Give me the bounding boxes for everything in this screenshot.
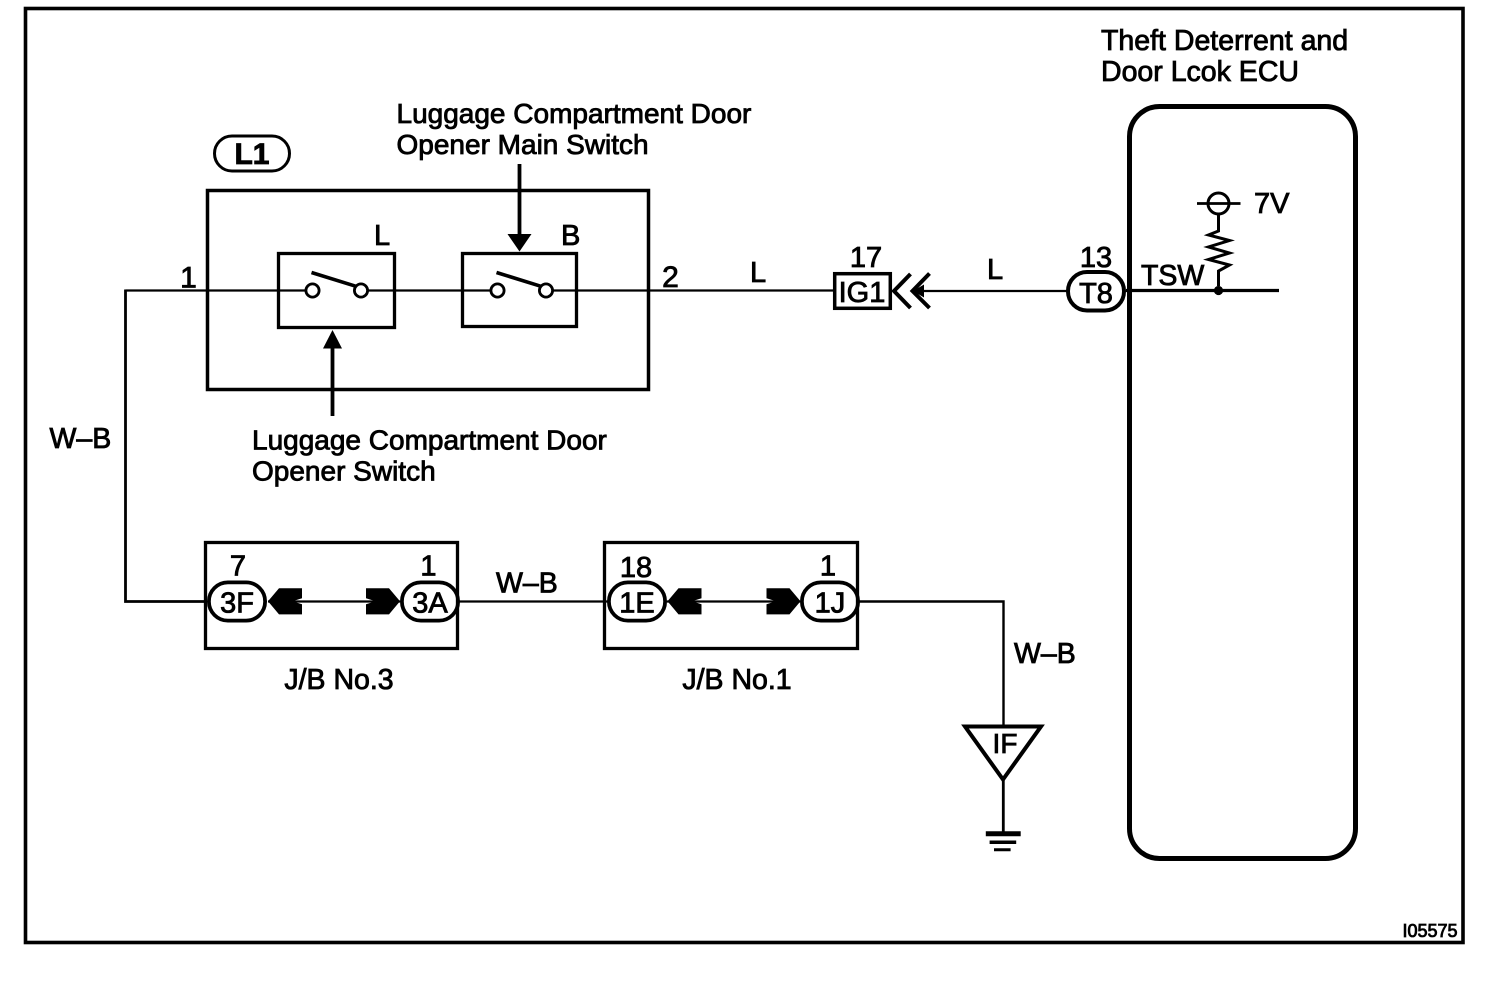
svg-text:13: 13	[1080, 242, 1112, 274]
switch SW-B box	[463, 254, 577, 327]
wire W-B vertical from pin1	[126, 290, 208, 602]
connector 1J oval	[802, 582, 858, 620]
wire pin1 to SW-L	[126, 289, 307, 291]
switch assembly L1 box	[208, 191, 649, 390]
svg-text:Theft Deterrent and: Theft Deterrent and	[1101, 25, 1348, 57]
switch SW-L box	[279, 254, 395, 328]
junction block J/B No.3 box	[206, 543, 458, 649]
svg-text:L: L	[750, 257, 766, 289]
arrow to main switch	[518, 164, 522, 236]
arrow to opener switch	[331, 347, 335, 416]
arrowhead left after 1E	[668, 588, 702, 614]
svg-text:W–B: W–B	[496, 568, 558, 600]
svg-text:1E: 1E	[619, 588, 654, 620]
junction chevrons	[894, 274, 911, 308]
svg-text:J/B No.3: J/B No.3	[284, 664, 393, 696]
ground symbol	[986, 831, 1021, 836]
wire 3F to 3A	[268, 600, 400, 602]
svg-text:Luggage Compartment Door: Luggage Compartment Door	[252, 425, 607, 456]
wire 3A to 1E	[459, 600, 608, 602]
ECU U1 box	[1130, 107, 1356, 859]
connector T8 oval	[1068, 272, 1124, 311]
svg-text:Opener Main Switch: Opener Main Switch	[397, 129, 649, 160]
wire 1E to 1J	[667, 600, 800, 602]
svg-text:Door Lcok ECU: Door Lcok ECU	[1101, 56, 1299, 88]
connector IG1 box	[835, 274, 891, 309]
arrowhead right before 3A	[366, 588, 400, 614]
svg-text:TSW: TSW	[1141, 260, 1204, 292]
wire arrowhead at junction chevron	[913, 285, 924, 298]
svg-text:18: 18	[620, 552, 652, 584]
svg-text:IG1: IG1	[839, 277, 886, 309]
svg-text:3F: 3F	[220, 588, 254, 620]
svg-text:T8: T8	[1079, 278, 1113, 310]
svg-text:1J: 1J	[815, 588, 846, 620]
svg-text:L1: L1	[234, 138, 269, 171]
switch SW-B contacts	[491, 284, 504, 297]
wire SW-L to SW-B	[368, 289, 492, 291]
svg-text:Luggage Compartment Door: Luggage Compartment Door	[397, 98, 752, 129]
svg-text:L: L	[374, 220, 390, 252]
connector 3A oval	[402, 582, 458, 620]
arrowhead left after 3F	[268, 588, 302, 614]
svg-text:1: 1	[820, 551, 836, 583]
svg-text:B: B	[561, 220, 580, 252]
svg-text:I05575: I05575	[1402, 921, 1457, 941]
junction node	[1214, 286, 1223, 295]
connector L1 label bubble	[215, 136, 290, 171]
svg-text:W–B: W–B	[1014, 638, 1076, 670]
svg-text:2: 2	[662, 261, 679, 294]
wire T8 into ECU	[1126, 289, 1279, 292]
svg-text:L: L	[987, 254, 1003, 286]
arrowhead right before 1J	[767, 588, 801, 614]
ground connector IF triangle	[965, 727, 1041, 780]
svg-text:17: 17	[850, 242, 882, 274]
svg-text:Opener Switch: Opener Switch	[252, 456, 436, 487]
connector 1E oval	[609, 582, 665, 620]
wire SW-B to IG1	[553, 289, 835, 291]
connector 3F oval	[209, 582, 265, 620]
wire 1J to ground drop	[859, 602, 1004, 728]
switch SW-L contacts	[306, 284, 319, 297]
wire IF to ground	[1002, 779, 1005, 832]
switch SW-L blade	[312, 273, 357, 287]
svg-text:J/B No.1: J/B No.1	[682, 664, 791, 696]
voltage source 7V	[1197, 202, 1241, 205]
junction block J/B No.1 box	[605, 543, 858, 649]
svg-text:W–B: W–B	[50, 423, 112, 455]
svg-text:7V: 7V	[1254, 188, 1290, 220]
wire chevron to T8	[916, 290, 1068, 292]
resistor R1	[1209, 214, 1230, 286]
switch SW-B blade	[497, 273, 542, 287]
svg-text:7: 7	[230, 551, 246, 583]
svg-text:IF: IF	[993, 728, 1018, 759]
svg-text:3A: 3A	[412, 588, 448, 620]
svg-text:1: 1	[420, 551, 436, 583]
